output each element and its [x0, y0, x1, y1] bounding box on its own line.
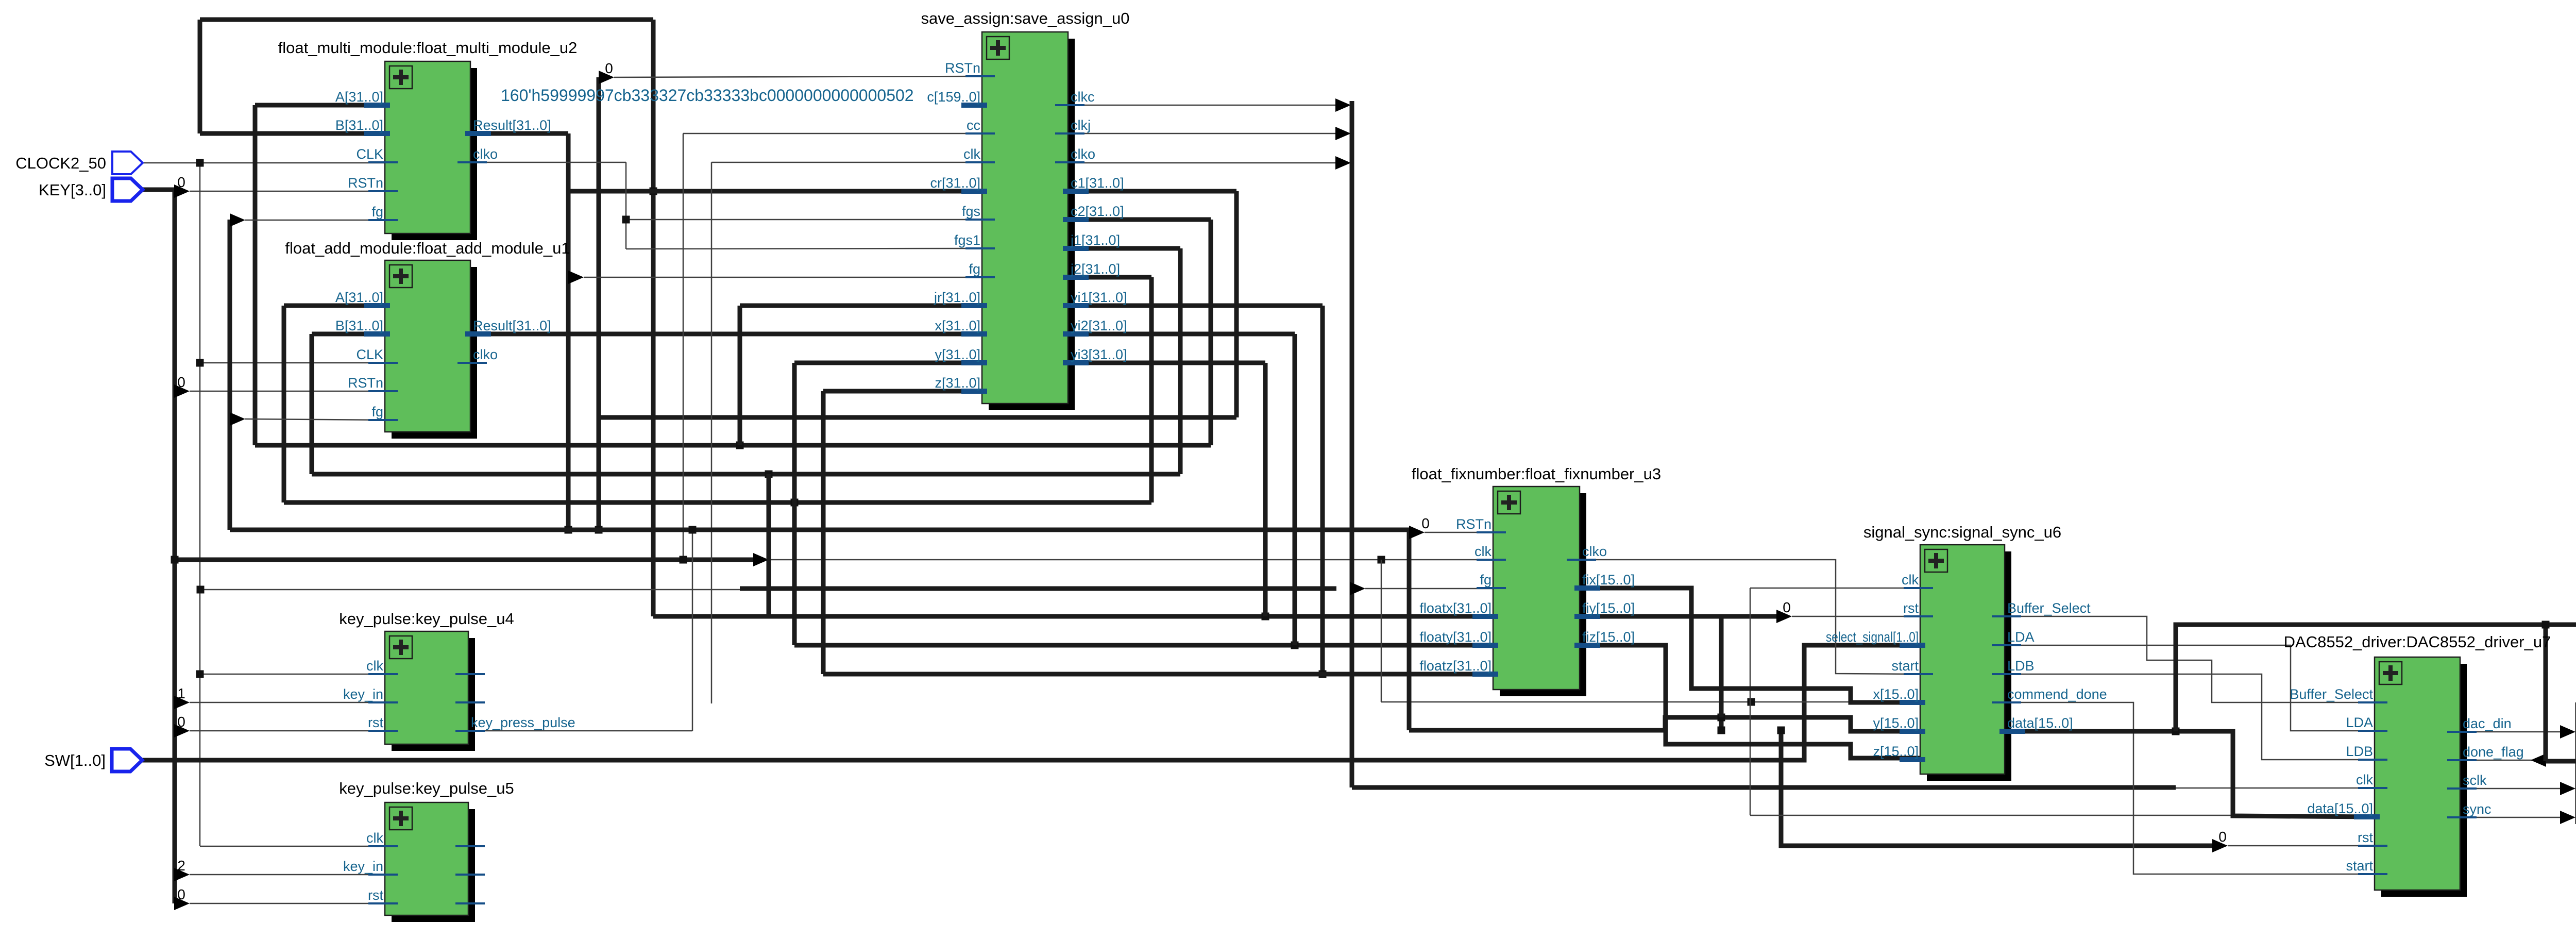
svg-text:fg: fg — [371, 204, 383, 220]
wire u0.c1 out — [1068, 189, 1236, 194]
input port CLOCK2_50 — [112, 152, 143, 174]
wire branch down to u3.floaty — [792, 363, 797, 645]
module signal_sync_u6 (signal_sync) — [1826, 523, 2107, 781]
svg-text:fg: fg — [371, 404, 383, 420]
svg-text:j2[31..0]: j2[31..0] — [1070, 261, 1120, 277]
arrowhead KEY bit0 tap to u5.rst — [174, 897, 190, 910]
svg-text:LDA: LDA — [2007, 629, 2035, 645]
svg-text:rst: rst — [2358, 830, 2373, 845]
wire u3.fiz to u6.z — [1580, 645, 1920, 758]
wire c1 bundle up — [597, 77, 601, 530]
wire u7.sclk out — [2460, 788, 2561, 790]
junction c2 row to jr branch — [736, 442, 744, 449]
wire u0.yi1 out — [1068, 304, 1323, 308]
svg-text:key_in: key_in — [343, 686, 383, 702]
wire key_press vertical up — [692, 530, 693, 731]
wire u2.Result feedback frame top — [200, 18, 653, 22]
svg-text:c2[31..0]: c2[31..0] — [1071, 204, 1124, 219]
svg-text:data[15..0]: data[15..0] — [2307, 801, 2373, 816]
svg-text:Result[31..0]: Result[31..0] — [473, 118, 551, 133]
wire KEY[2] to u5.key_in — [190, 874, 385, 876]
arrowhead KEY bit0 tap to u2.RSTn — [174, 185, 190, 198]
wire u0.yi2 vertical — [1293, 334, 1297, 645]
svg-text:Result[31..0]: Result[31..0] — [473, 318, 551, 333]
wire fgs into u0 — [626, 219, 982, 221]
svg-text:select_signal[1..0]: select_signal[1..0] — [1826, 629, 1919, 645]
svg-text:0: 0 — [1421, 515, 1430, 531]
svg-text:rst: rst — [368, 887, 383, 903]
wire branch up to u0.jr — [738, 306, 742, 445]
wire u0.yi3 vertical — [1263, 363, 1268, 616]
junction key_press bundle u6 branch — [1718, 727, 1725, 734]
wire key_press bus vertical right — [1407, 530, 1412, 730]
junction cc vertical at dist row — [680, 556, 687, 564]
wire fg dist row thin part — [200, 589, 740, 591]
wire bundle down to u7.rst row — [1781, 730, 2212, 846]
arrowhead KEY bit0 tap to u1.RSTn — [174, 384, 190, 398]
svg-text:fgs: fgs — [962, 204, 980, 219]
svg-text:Buffer_Select: Buffer_Select — [2007, 600, 2091, 616]
svg-text:floaty[31..0]: floaty[31..0] — [1419, 629, 1492, 645]
svg-text:fiy[15..0]: fiy[15..0] — [1582, 600, 1635, 616]
junction fg dist at CLOCK trunk — [197, 586, 205, 594]
wire u0.clk feed row — [711, 162, 982, 163]
svg-text:RSTn: RSTn — [945, 60, 980, 76]
module float_fixnumber_u3 (float_fixnumber) — [1412, 465, 1661, 696]
arrowhead bit0 tap to u6.rst — [1776, 610, 1792, 623]
svg-text:z[31..0]: z[31..0] — [935, 375, 980, 391]
svg-text:0: 0 — [605, 60, 613, 76]
arrowhead clkj into bus — [1335, 127, 1351, 140]
svg-text:RSTn: RSTn — [1456, 516, 1492, 532]
svg-text:clk: clk — [366, 658, 383, 674]
svg-text:0: 0 — [177, 714, 185, 730]
wire KEY bus vertical trunk — [173, 190, 177, 903]
input port KEY[3..0] — [112, 178, 143, 201]
svg-text:cc: cc — [967, 118, 980, 133]
module save_assign_u0 (save_assign) — [921, 9, 1130, 410]
wire c2 return row — [255, 443, 1211, 448]
wire bit0 to u7.rst — [2228, 845, 2375, 847]
wire u0.z feed row — [823, 389, 982, 394]
svg-text:SW[1..0]: SW[1..0] — [44, 751, 106, 769]
svg-text:B[31..0]: B[31..0] — [335, 118, 383, 133]
wire u0.y feed row — [794, 361, 982, 365]
wire CLOCK2_50 to u4.clk — [200, 674, 385, 675]
junction Result bundle at key_press row — [565, 526, 572, 534]
wire into u1.A — [284, 304, 385, 308]
wire bit0 to u6.rst — [1792, 616, 1920, 617]
wire u3.fiy down to y row — [1580, 616, 1721, 717]
wire key_press bus row to u6.y — [1409, 717, 1920, 731]
wire done bundle vertical — [2544, 625, 2548, 761]
svg-text:signal_sync:signal_sync_u6: signal_sync:signal_sync_u6 — [1863, 523, 2061, 541]
junction floatx row with yi3 — [1262, 613, 1269, 621]
wire CLOCK2_50 vertical trunk — [199, 163, 201, 846]
wire tap to u3.RSTn — [1425, 532, 1493, 533]
junction CLOCK2_50 at u2 row — [196, 159, 204, 167]
svg-text:fg: fg — [969, 261, 980, 277]
wire u2 feedback frame left — [198, 20, 202, 133]
wire u6.clk feed lower row — [1750, 815, 2231, 816]
input port SW[1..0] — [112, 749, 142, 772]
svg-text:RSTn: RSTn — [348, 175, 383, 191]
wire c2 up to u2.A — [253, 105, 258, 445]
junction floaty row with yi2 — [1291, 642, 1299, 649]
svg-text:sync: sync — [2463, 801, 2492, 817]
svg-text:jr[31..0]: jr[31..0] — [934, 290, 980, 305]
wire clock bundle row to u7.clk — [1352, 785, 2176, 790]
wire u3.clko out to u6.start — [1580, 560, 1920, 674]
wire u0.yi3 out — [1068, 361, 1265, 365]
junction c1 bundle at key_press row — [595, 526, 603, 534]
svg-text:start: start — [2346, 858, 2373, 874]
wire u0.yi2 out — [1068, 332, 1295, 337]
junction data row with display frame — [2172, 728, 2180, 735]
svg-text:B[31..0]: B[31..0] — [335, 318, 383, 333]
wire fgs1 into u0 — [626, 248, 982, 249]
junction key_press bundle u7 branch — [1777, 727, 1785, 734]
wire data display frame — [2176, 625, 2576, 761]
svg-text:fix[15..0]: fix[15..0] — [1582, 572, 1635, 588]
wire u2 feedback frame right vertical — [651, 20, 656, 616]
wire clock bundle vertical — [1350, 101, 1354, 787]
svg-text:sclk: sclk — [2463, 773, 2487, 788]
wire CLOCK2_50 to u5.clk — [200, 846, 385, 847]
junction key_press joins bus — [689, 526, 697, 534]
arrowhead sync into GPIO bus — [2560, 811, 2575, 824]
svg-text:yi1[31..0]: yi1[31..0] — [1071, 290, 1127, 305]
svg-text:clk: clk — [2356, 772, 2373, 787]
wire u0.clko out — [1068, 162, 1335, 164]
wire LEDR bus to port — [2546, 759, 2576, 764]
module float_multi_module_u2 (float_multi_module) — [278, 39, 578, 240]
svg-text:clk: clk — [1475, 544, 1492, 559]
wire u0.j1 out — [1068, 246, 1180, 251]
module DAC8552_driver_u7 (DAC8552_driver) — [2284, 633, 2551, 897]
svg-text:Buffer_Select: Buffer_Select — [2290, 686, 2373, 702]
arrowhead fg tap to u1.fg — [230, 412, 245, 426]
svg-text:start: start — [1891, 658, 1919, 674]
svg-text:CLOCK2_50: CLOCK2_50 — [15, 154, 106, 172]
wire KEY dist row thick part — [175, 558, 753, 562]
wire u6.Buffer_Select to u7 — [2005, 616, 2375, 702]
module key_pulse_u4 (key_pulse) — [339, 610, 575, 751]
svg-text:clko: clko — [1582, 544, 1607, 559]
wire clk branch row right — [1381, 701, 1855, 703]
wire dist row thin to u3.clk — [769, 559, 1493, 561]
arrowhead done_flag join — [2531, 753, 2546, 767]
wire u0.z feed row to u3.floatz — [823, 672, 1493, 677]
wire j2 return row — [284, 500, 1151, 505]
svg-text:DAC8552_driver:DAC8552_driver_: DAC8552_driver:DAC8552_driver_u7 — [2284, 633, 2551, 651]
arrowhead fg tap — [1350, 582, 1365, 595]
svg-text:clkj: clkj — [1071, 118, 1091, 133]
wire u2.Result jog down — [566, 133, 571, 530]
svg-text:LDA: LDA — [2346, 715, 2373, 730]
svg-text:dac_din: dac_din — [2463, 716, 2512, 731]
wire key_press bus row — [230, 528, 1409, 532]
wire KEY[0] to u1.RSTn — [190, 391, 385, 392]
arrowhead dac_din into GPIO bus — [2560, 725, 2575, 739]
wire j2 up to u1.A — [282, 306, 286, 502]
wire u0.c2 vertical — [1209, 220, 1213, 445]
wire fg dist row thick part — [740, 586, 1336, 591]
arrowhead fg tap to u2.fg — [230, 213, 245, 227]
wire u4.key_press_pulse out — [468, 730, 692, 732]
svg-text:y[15..0]: y[15..0] — [1873, 715, 1919, 731]
arrowhead KEY bit1 tap to u4.key_in — [174, 696, 190, 709]
junction CLOCK2_50 at u1 row — [196, 359, 204, 367]
wire KEY[0] to u2.RSTn — [190, 191, 385, 192]
wire u6.data to u7.data — [2005, 731, 2375, 817]
arrowhead bit0 tap to u7.rst — [2212, 839, 2228, 852]
arrowhead c1 bit0 tap to u0.RSTn — [599, 71, 614, 84]
svg-text:0: 0 — [177, 374, 185, 390]
module float_add_module_u1 (float_add_module) — [285, 239, 570, 439]
wire bundle up to u6.rst row — [1721, 616, 1776, 730]
svg-text:clk: clk — [366, 830, 383, 846]
svg-text:fiz[15..0]: fiz[15..0] — [1582, 629, 1635, 645]
svg-text:clko: clko — [473, 347, 498, 362]
arrowhead KEY bit2 tap to u5.key_in — [174, 868, 190, 881]
wire KEY[0] to u5.rst — [190, 903, 385, 904]
svg-text:CLK: CLK — [356, 146, 383, 162]
wire u7.dac_din out — [2460, 731, 2561, 733]
svg-text:clkc: clkc — [1071, 89, 1095, 105]
wire CLOCK2_50 to u2.CLK — [143, 162, 385, 164]
svg-text:clk: clk — [963, 146, 980, 162]
arrowhead KEY dist fanout — [753, 553, 769, 566]
wire u0.j1 vertical — [1178, 248, 1183, 474]
svg-text:1: 1 — [177, 685, 185, 701]
wire u1.Result to u0.x — [474, 332, 982, 337]
wire KEY[1] to u4.key_in — [190, 702, 385, 703]
wire tap to u2.fg — [245, 220, 385, 221]
svg-text:LDB: LDB — [2007, 658, 2035, 674]
wire u6.LDB to u7 — [2005, 674, 2375, 760]
svg-text:j1[31..0]: j1[31..0] — [1070, 232, 1120, 248]
wire KEY[3..0] bus from port — [143, 188, 175, 192]
svg-text:2: 2 — [177, 858, 185, 874]
wire u0.c1 vertical — [1234, 191, 1239, 417]
wire floatz branch vertical — [821, 391, 826, 674]
svg-text:c1[31..0]: c1[31..0] — [1071, 175, 1124, 191]
wire u0.clkc out — [1068, 105, 1335, 106]
wire into u0.jr — [740, 304, 982, 308]
svg-text:KEY[3..0]: KEY[3..0] — [39, 181, 106, 199]
wire thin clk to u7.clk — [2176, 787, 2375, 789]
wire tap to u1.fg — [245, 419, 385, 420]
wire u6.LDA to u7 — [2005, 645, 2375, 731]
junction clk branch with x row — [1748, 698, 1755, 706]
svg-text:A[31..0]: A[31..0] — [335, 290, 383, 305]
svg-text:key_press_pulse: key_press_pulse — [471, 715, 575, 730]
wire u2.clko out — [474, 162, 626, 163]
junction yi1 with floatz row — [1319, 670, 1327, 678]
svg-text:fg: fg — [1480, 572, 1492, 588]
junction frame with cr row — [650, 188, 657, 195]
svg-text:CLK: CLK — [356, 347, 383, 362]
wire u0.j2 vertical — [1149, 277, 1154, 502]
wire j1 return row — [312, 472, 1180, 477]
svg-text:yi2[31..0]: yi2[31..0] — [1071, 318, 1127, 333]
svg-text:cr[31..0]: cr[31..0] — [930, 175, 980, 191]
svg-text:c[159..0]: c[159..0] — [927, 89, 980, 105]
wire u0.c2 out — [1068, 217, 1211, 222]
arrowhead bit0 tap to u3.RSTn — [1409, 526, 1425, 539]
wire u2.Result out — [474, 131, 568, 136]
wire into u3.floatx row — [653, 614, 1493, 619]
svg-text:float_multi_module:float_multi: float_multi_module:float_multi_module_u2 — [278, 39, 578, 57]
svg-text:clko: clko — [1071, 146, 1095, 162]
junction KEY trunk to dist row — [171, 556, 179, 564]
arrowhead sclk into GPIO bus — [2560, 782, 2575, 795]
svg-text:done_flag: done_flag — [2463, 744, 2524, 760]
svg-text:x[15..0]: x[15..0] — [1873, 686, 1919, 702]
svg-text:clk: clk — [1902, 572, 1919, 588]
wire into u1.B — [312, 332, 385, 337]
wire fg tap to u3.fg — [1365, 588, 1493, 590]
wire fg bus vertical left — [228, 220, 232, 530]
svg-text:key_pulse:key_pulse_u4: key_pulse:key_pulse_u4 — [339, 610, 514, 628]
svg-text:A[31..0]: A[31..0] — [335, 89, 383, 105]
wire u7.done_flag out — [2460, 760, 2546, 761]
svg-text:floatx[31..0]: floatx[31..0] — [1419, 600, 1492, 616]
arrowhead clkc into bus — [1335, 98, 1351, 112]
wire fg into u0 — [584, 277, 982, 278]
svg-text:y[31..0]: y[31..0] — [935, 347, 980, 362]
wire u0.clkj out — [1068, 133, 1335, 135]
wire u0.clk feed vertical — [711, 162, 713, 703]
svg-text:0: 0 — [177, 886, 185, 902]
wire u6.clk feed row — [1750, 588, 1920, 589]
svg-text:save_assign:save_assign_u0: save_assign:save_assign_u0 — [921, 9, 1130, 27]
wire bit0 to u0.RSTn — [614, 76, 982, 77]
wire CLOCK2_50 to u1.CLK — [200, 362, 385, 364]
svg-text:clko: clko — [473, 146, 498, 162]
wire u7.sync out — [2460, 817, 2561, 818]
module key_pulse_u5 (key_pulse) — [339, 779, 514, 922]
svg-text:RSTn: RSTn — [348, 375, 383, 391]
junction fiy joins y row — [1718, 714, 1725, 722]
junction CLOCK2_50 at u4 row — [196, 670, 204, 678]
svg-text:160'h59999997cb333327cb33333bc: 160'h59999997cb333327cb33333bc0000000000… — [501, 86, 914, 105]
wire cc feed vertical — [683, 133, 684, 560]
wire u2 feedback to u2.B — [200, 131, 385, 136]
wire into u2.A — [255, 103, 385, 108]
wire u6.clk feed vertical — [1750, 588, 1751, 815]
svg-text:LDB: LDB — [2346, 744, 2373, 759]
wire GPIO bus vertical — [2575, 702, 2576, 824]
junction clko tap to fgs — [622, 216, 630, 224]
wire u0.j2 out — [1068, 275, 1151, 280]
junction j1 row to floatx branch — [765, 471, 773, 478]
junction clk row branch down — [1378, 556, 1385, 564]
junction done bundle at frame — [2542, 621, 2550, 629]
arrowhead clko into bus — [1335, 156, 1351, 170]
wire cc into u0 — [683, 133, 982, 135]
svg-text:fgs1: fgs1 — [954, 232, 980, 248]
svg-text:float_add_module:float_add_mod: float_add_module:float_add_module_u1 — [285, 239, 570, 257]
svg-text:x[31..0]: x[31..0] — [935, 318, 980, 333]
wire clk branch down — [1381, 560, 1382, 702]
wire into u3.floaty row — [794, 643, 1493, 648]
svg-text:0: 0 — [2218, 829, 2227, 845]
svg-text:data[15..0]: data[15..0] — [2007, 715, 2073, 731]
wire KEY[0] to u4.rst — [190, 730, 385, 732]
svg-text:0: 0 — [177, 174, 185, 190]
svg-text:commend_done: commend_done — [2007, 686, 2107, 702]
svg-text:floatz[31..0]: floatz[31..0] — [1419, 658, 1492, 674]
wire branch down to u3.floatx — [767, 474, 771, 616]
wire u3.fix to u6.x — [1580, 588, 1920, 702]
wire clko vertical branch — [625, 162, 627, 249]
svg-text:rst: rst — [368, 715, 383, 730]
wire j1 up to u1.B — [310, 334, 314, 474]
wire u2.Result to u0.cr — [568, 189, 982, 194]
svg-text:float_fixnumber:float_fixnumbe: float_fixnumber:float_fixnumber_u3 — [1412, 465, 1661, 483]
svg-text:0: 0 — [1783, 599, 1791, 615]
arrowhead KEY bit0 tap to u4.rst — [174, 724, 190, 737]
svg-text:rst: rst — [1903, 600, 1919, 616]
svg-text:key_in: key_in — [343, 859, 383, 874]
wire u0.yi1 vertical — [1320, 306, 1325, 674]
wire u6.commend_done to u7.start — [2005, 702, 2375, 874]
svg-text:z[15..0]: z[15..0] — [1873, 744, 1919, 759]
wire c1 return row — [599, 415, 1236, 420]
junction j2 row to floaty branch — [791, 499, 799, 507]
arrowhead Result bundle tap to u0.fg — [568, 271, 584, 284]
svg-text:yi3[31..0]: yi3[31..0] — [1071, 347, 1127, 362]
wire SW[1..0] bus to u6.select_signal — [142, 645, 1920, 760]
svg-text:key_pulse:key_pulse_u5: key_pulse:key_pulse_u5 — [339, 779, 514, 797]
